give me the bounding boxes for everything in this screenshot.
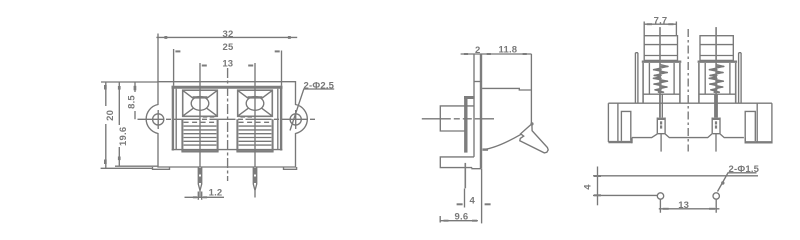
svg-text:13: 13 (222, 59, 233, 70)
button 2 hidden dashed rib (239, 121, 272, 123)
button 1 hidden dashed rib (184, 121, 217, 123)
dim 13 ticks (202, 65, 207, 67)
button 1 ribs (184, 126, 217, 145)
shell right wall double (739, 53, 742, 103)
svg-text:2: 2 (475, 45, 480, 56)
svg-text:9.6: 9.6 (455, 212, 469, 223)
dim 19.6 line (118, 82, 120, 166)
button 1 rib box sides (182, 119, 217, 151)
clip arc root (thick) (483, 148, 489, 150)
tower 1 line 2 (644, 44, 677, 46)
tower 2 collar (thick) (698, 61, 738, 63)
right end block outer (771, 103, 773, 143)
pin 1 leads (660, 94, 662, 117)
tower 1 cavity walls (643, 63, 680, 103)
plate outline with ear lobes (146, 82, 307, 167)
footprint second line (593, 194, 657, 196)
side plate right extension down (481, 169, 483, 224)
button 2 ellipse (246, 97, 264, 111)
svg-text:4: 4 (470, 196, 476, 207)
button 1 diagonals (183, 91, 216, 116)
dim 4 left extension (464, 189, 466, 208)
dim 1.2 line (185, 196, 225, 198)
tower 2 cavity bottom (699, 93, 736, 95)
right end block slot (745, 111, 755, 141)
right step vertical (744, 138, 746, 144)
bottom edge with pin notches (632, 134, 744, 138)
dim 25 ticks (175, 50, 180, 52)
clip spring arc (484, 134, 522, 149)
dim 7.7 line (644, 23, 677, 25)
left ear hole (153, 114, 164, 125)
svg-text:13: 13 (678, 200, 689, 211)
button 1 bottom bar (thick) (181, 150, 218, 152)
svg-text:11.8: 11.8 (499, 45, 518, 56)
left step vertical (631, 138, 633, 144)
lower tab (440, 157, 474, 168)
plate bottom extension (19.6) (115, 165, 158, 167)
left hole vertical crosshair (157, 110, 159, 129)
dim 25 left extension (173, 49, 175, 86)
button 2 rib box sides (237, 119, 272, 151)
svg-text:2-Φ1.5: 2-Φ1.5 (729, 164, 760, 175)
dim 32 dots (164, 36, 167, 39)
dim 7.7 ticks (647, 23, 652, 25)
left end block divider (617, 103, 619, 141)
dim 11.8 tick (523, 53, 527, 55)
button 2 diagonals (238, 91, 271, 116)
connector body top edge (thick) (172, 86, 283, 89)
svg-text:25: 25 (223, 42, 234, 53)
dim 9.6 ticks (444, 220, 449, 222)
tower 1 cavity bottom (643, 93, 680, 95)
svg-text:20: 20 (105, 110, 116, 121)
body right edge (530, 54, 532, 123)
pin 1 outline (198, 167, 201, 198)
button 1 square (183, 90, 218, 116)
tower 2 cavity inner walls (705, 63, 730, 94)
plate top extension to left (101, 81, 158, 83)
dim 13 line (659, 208, 720, 210)
contact strip top cap (464, 96, 475, 99)
pin 1 box top (thick) (657, 118, 665, 120)
svg-text:8.5: 8.5 (126, 95, 137, 109)
pin 1 tail (660, 134, 662, 152)
button 2 bottom bar (thick) (236, 150, 273, 152)
dim 32 left extension (157, 34, 159, 82)
side pin (464, 163, 466, 188)
svg-text:19.6: 19.6 (118, 127, 129, 146)
connector body right edge (thick) (280, 86, 282, 151)
tower 2 line 3 (700, 55, 733, 57)
svg-text:4: 4 (583, 184, 594, 190)
vertical centerline (227, 68, 229, 181)
button 1 ellipse (191, 97, 209, 111)
svg-text:32: 32 (223, 29, 234, 40)
button 1 centerline (199, 63, 201, 167)
pin 2 tail (715, 134, 717, 152)
dim 32 line (156, 36, 297, 38)
footprint hole 1 (657, 193, 663, 199)
right end block bottom (thick) (745, 141, 772, 143)
tower 1 spring (653, 66, 668, 92)
dim 20 line (105, 82, 107, 168)
pin 2 outline (253, 167, 256, 198)
button 2 ellipse thick top (248, 96, 263, 98)
dim 13 extensions (660, 200, 716, 213)
upper tab (440, 106, 474, 131)
notch bottom extension (20) (101, 167, 153, 169)
base top edge (608, 102, 772, 104)
left end block slot (621, 111, 630, 140)
dim 1.2 ticks (193, 196, 197, 198)
inner wall right (277, 89, 279, 150)
tower 1 centerline (659, 27, 661, 117)
dim 4 vertical line (597, 167, 599, 206)
tower 2 cavity walls (699, 63, 736, 103)
inner wall left (175, 89, 177, 150)
body top edge with step (482, 88, 531, 90)
tower 1 collar (thick) (642, 61, 682, 63)
right end block divider (756, 103, 758, 142)
side plate right edge (thick) (480, 54, 482, 169)
dim 2 ticks (464, 53, 468, 55)
svg-text:1.2: 1.2 (209, 188, 223, 199)
bottom-right notch (284, 167, 297, 169)
left end block outer (607, 103, 609, 142)
button 1 band hidden dashes (203, 116, 217, 118)
clip peak dot (530, 122, 533, 125)
right hole vertical crosshair (295, 110, 297, 129)
leader 2-phi2.5 (290, 89, 334, 131)
dim 19.6 dots (118, 86, 121, 90)
pin 2 dark core (254, 168, 256, 184)
dim 4 ticks (594, 175, 601, 177)
connector body bottom thin line (172, 149, 283, 151)
lower tab step to plate (472, 168, 481, 169)
pin 1 box (657, 118, 665, 134)
pin 2 box (712, 118, 720, 134)
pin 2 box top (thick) (712, 118, 720, 120)
button 2 band hidden dashes (241, 116, 253, 118)
left end block bottom (thick) (608, 141, 632, 143)
tower 1 outer (644, 36, 677, 61)
tower 1 cavity inner walls (649, 63, 674, 94)
tower 2 centerline (715, 27, 717, 117)
contact strip vertical (thick) (464, 96, 467, 153)
side plate left edge (473, 54, 475, 157)
pin 1 dark core (199, 168, 201, 184)
dim 13 ticks (663, 208, 669, 210)
leader 2-phi1.5 (718, 173, 757, 192)
dim 4 ticks (457, 203, 463, 205)
dim 25 right extension (281, 51, 283, 86)
clip lever outline (520, 124, 548, 153)
tower 2 spring (709, 66, 724, 92)
right ear hole (290, 114, 301, 125)
shell left wall double (635, 53, 638, 103)
center dash line (687, 29, 689, 152)
button 2 square (238, 90, 273, 116)
tower 1 line 3 (644, 55, 677, 57)
svg-text:7.7: 7.7 (654, 15, 668, 26)
dim 2/11.8 line (461, 53, 532, 55)
leader 2-phi1.5 arrow dot (721, 181, 724, 184)
pin 1 inner (660, 121, 662, 124)
horizontal centerline (138, 118, 317, 120)
dim 9.6 left extension (439, 216, 441, 223)
pin 2 inner (715, 121, 717, 124)
svg-text:2-Φ2.5: 2-Φ2.5 (304, 80, 335, 91)
side plate top cap (474, 81, 482, 83)
side centerline (422, 118, 494, 120)
dim 8.5 dots (134, 86, 137, 91)
pin 2 leads (715, 94, 717, 117)
dim 8.5 line (134, 82, 136, 119)
dim 9.6 line (440, 220, 478, 222)
footprint hole 2 (713, 193, 719, 199)
tower 2 line 2 (700, 44, 733, 46)
dim 20 dots (104, 85, 107, 90)
button 1 ellipse thick top (193, 96, 208, 98)
connector body left edge (thick) (172, 86, 174, 151)
tower 2 outer (700, 36, 733, 61)
footprint top line (593, 175, 758, 177)
dim 1.2 extensions (198, 192, 201, 200)
button 2 centerline (254, 63, 256, 167)
dim 7.7 extensions (644, 22, 676, 36)
bottom-left notch (153, 167, 170, 169)
button 2 ribs (239, 126, 272, 145)
